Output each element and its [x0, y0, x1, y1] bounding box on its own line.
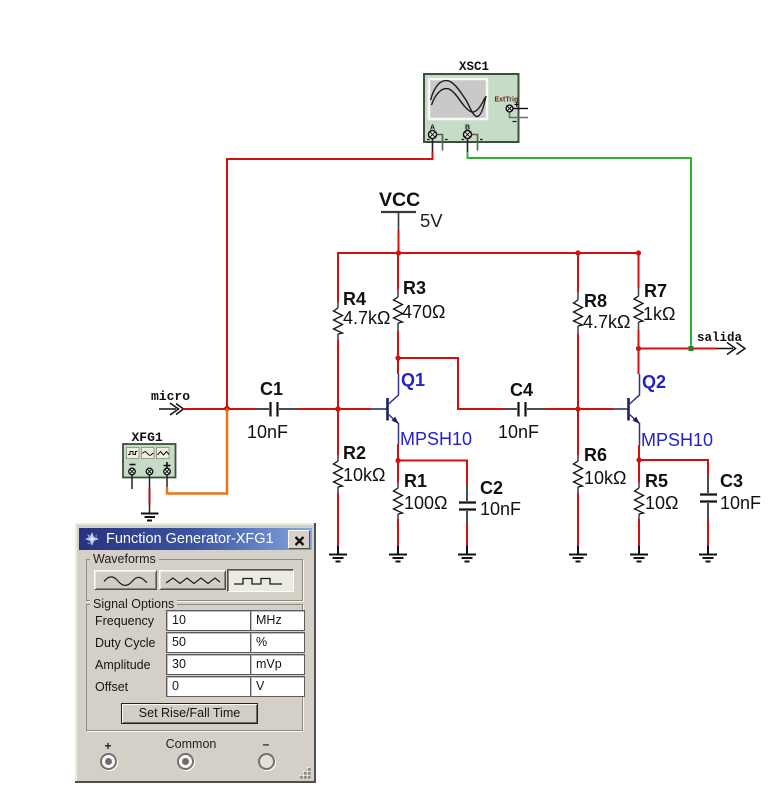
- wire scope B to salida node (green): [468, 152, 692, 348]
- wire rail to R3: [397, 253, 399, 289]
- svg-text:salida: salida: [697, 331, 743, 345]
- capacitor C1 10nF: [247, 379, 297, 442]
- wire XFG1 common to ground: [149, 475, 151, 488]
- ground (XFG1): [141, 514, 159, 521]
- svg-text:5V: 5V: [420, 210, 443, 231]
- waveform button sine: [94, 570, 157, 590]
- svg-text:1kΩ: 1kΩ: [643, 304, 675, 324]
- svg-text:VCC: VCC: [379, 189, 420, 211]
- wire micro to C1: [183, 408, 255, 410]
- resistor R7 1k: [634, 281, 675, 330]
- wire emitter to R5: [638, 460, 640, 482]
- svg-text:R3: R3: [403, 278, 426, 298]
- svg-text:10nF: 10nF: [720, 493, 761, 513]
- node C4/R8 junction: [575, 406, 580, 411]
- ground (R1): [389, 546, 407, 562]
- wire Q2 emitter: [638, 445, 640, 460]
- wire supply rail: [338, 252, 639, 254]
- connector salida arrow: [697, 331, 745, 355]
- wire R4 to base node: [337, 340, 339, 455]
- button Set Rise/Fall Time: [121, 703, 258, 724]
- terminal minus: [261, 737, 271, 751]
- capacitor C3 10nF: [700, 471, 761, 520]
- svg-text:C1: C1: [260, 379, 283, 399]
- svg-text:10nF: 10nF: [480, 499, 521, 519]
- wire R2 to ground: [337, 493, 339, 546]
- wire scope B stub: [467, 139, 469, 153]
- svg-text:R1: R1: [404, 471, 427, 491]
- resistor R5 10: [635, 471, 679, 519]
- node collector Q1: [395, 355, 400, 360]
- node micro/XFG1: [224, 406, 230, 412]
- transistor Q2 MPSH10: [613, 372, 713, 450]
- wire R7 to salida node: [638, 330, 640, 349]
- oscilloscope XSC1: [424, 60, 528, 151]
- svg-text:MPSH10: MPSH10: [641, 430, 713, 450]
- wire XFG1 minus stub: [131, 475, 133, 489]
- terminal common: [146, 737, 236, 751]
- wire R1 to ground: [397, 519, 399, 546]
- Function Generator dialog window: [75, 523, 316, 783]
- wire rail to R7: [638, 252, 640, 288]
- svg-text:C4: C4: [510, 380, 533, 400]
- svg-text:micro: micro: [151, 389, 190, 404]
- group Waveforms: [86, 559, 303, 601]
- resistor R3 470: [394, 278, 446, 331]
- resistor R2 10k: [334, 443, 386, 493]
- svg-text:10nF: 10nF: [247, 422, 288, 442]
- svg-text:Q1: Q1: [401, 370, 425, 390]
- wire R3 to collector node: [397, 331, 399, 374]
- wire scope A stub: [432, 139, 434, 153]
- svg-text:10kΩ: 10kΩ: [584, 468, 626, 488]
- ground (C3): [699, 546, 717, 562]
- svg-text:R6: R6: [584, 445, 607, 465]
- wire C1 to Q1 base: [297, 408, 371, 410]
- row Duty Cycle: [95, 636, 155, 650]
- wire C3 to ground: [707, 520, 709, 546]
- wire XFG1 plus stub: [166, 475, 168, 487]
- waveform button square (selected): [227, 569, 294, 592]
- wire salida node to Q2 collector: [638, 349, 640, 375]
- capacitor C4 10nF: [498, 380, 545, 442]
- svg-text:R2: R2: [343, 443, 366, 463]
- svg-text:XSC1: XSC1: [459, 60, 489, 74]
- resize grip: [299, 767, 312, 780]
- svg-text:4.7kΩ: 4.7kΩ: [343, 308, 390, 328]
- svg-text:Q2: Q2: [642, 372, 666, 392]
- wire XFG1 plus to micro node (orange): [167, 409, 227, 494]
- ground (C2): [458, 546, 476, 562]
- row Frequency: [95, 614, 154, 628]
- wire rail to R4: [337, 252, 339, 302]
- node rail/R7: [636, 250, 641, 255]
- svg-text:10nF: 10nF: [498, 422, 539, 442]
- resistor R4 4.7k: [334, 289, 391, 340]
- connector micro arrow: [151, 389, 190, 415]
- resistor R1 100: [394, 471, 448, 519]
- svg-text:10kΩ: 10kΩ: [343, 465, 385, 485]
- function generator XFG1 icon: [123, 430, 176, 478]
- svg-text:ExtTrig: ExtTrig: [495, 97, 519, 104]
- title bar: [79, 528, 312, 550]
- svg-text:100Ω: 100Ω: [404, 493, 448, 513]
- resistor R8 4.7k: [574, 291, 631, 334]
- wire C4 to Q2 base: [545, 408, 613, 410]
- terminal plus: [103, 739, 113, 753]
- svg-text:XFG1: XFG1: [132, 430, 163, 445]
- waveform button triangle: [159, 570, 226, 590]
- node Q1 emitter: [395, 458, 400, 463]
- wire scope A to micro node (red): [227, 152, 433, 408]
- wire VCC to rail: [398, 230, 400, 253]
- node base/R4R2: [335, 406, 341, 412]
- wire rail to R8: [577, 252, 579, 292]
- wire collector node to C4: [398, 358, 503, 409]
- svg-text:R4: R4: [343, 289, 366, 309]
- power VCC 5V: [379, 189, 443, 231]
- wire R5 to ground: [638, 519, 640, 546]
- node R7/Q2 collector: [636, 346, 641, 351]
- svg-text:R8: R8: [584, 291, 607, 311]
- transistor Q1 MPSH10: [371, 370, 472, 449]
- svg-text:470Ω: 470Ω: [402, 302, 446, 322]
- group Signal Options: [86, 604, 303, 731]
- wire R6 to ground: [577, 493, 579, 546]
- svg-text:C2: C2: [480, 478, 503, 498]
- wire Q1 emitter: [397, 444, 399, 461]
- row Amplitude: [95, 658, 151, 672]
- node rail/R8: [575, 250, 580, 255]
- svg-text:R7: R7: [644, 281, 667, 301]
- node Q2 emitter: [636, 457, 641, 462]
- ground (R6): [569, 546, 587, 562]
- svg-text:10Ω: 10Ω: [645, 493, 678, 513]
- ground (R2): [329, 546, 347, 562]
- svg-text:R5: R5: [645, 471, 668, 491]
- svg-text:4.7kΩ: 4.7kΩ: [583, 312, 630, 332]
- wire emitter to R1: [397, 461, 399, 483]
- wire emitter to C3: [639, 460, 708, 475]
- wire emitter to C2: [398, 461, 467, 487]
- row Offset: [95, 680, 128, 694]
- wire salida: [639, 348, 718, 350]
- wire C2 to ground: [466, 524, 468, 546]
- svg-text:C3: C3: [720, 471, 743, 491]
- resistor R6 10k: [574, 445, 627, 493]
- node salida (green): [689, 346, 694, 351]
- wire R8 to R6: [577, 334, 579, 455]
- node rail/VCC: [396, 250, 401, 255]
- svg-text:MPSH10: MPSH10: [400, 429, 472, 449]
- ground (R5): [630, 546, 648, 562]
- capacitor C2 10nF: [459, 478, 521, 524]
